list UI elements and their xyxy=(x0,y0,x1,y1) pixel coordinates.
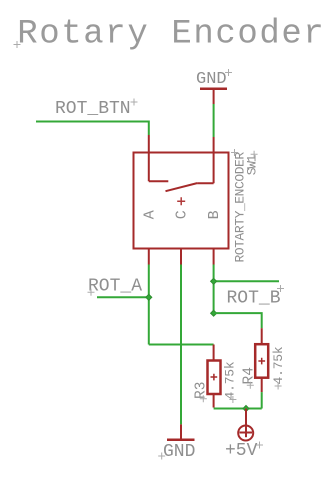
resistor R4 pin top xyxy=(261,328,263,344)
svg-text:4.75k: 4.75k xyxy=(271,346,286,384)
resistor R3 body xyxy=(208,361,221,395)
label R3 cross xyxy=(200,395,207,402)
label R4 cross xyxy=(247,382,254,389)
wire A column down xyxy=(148,265,150,345)
svg-text:+5V: +5V xyxy=(225,441,258,461)
pin SW1 bottom C xyxy=(180,249,182,265)
junction +5V xyxy=(243,406,249,412)
svg-text:ROT_BTN: ROT_BTN xyxy=(55,99,131,119)
supply symbol +5V plus bar xyxy=(240,432,253,434)
node ROT_B label cross xyxy=(277,285,284,292)
svg-text:C: C xyxy=(173,210,190,219)
title origin cross xyxy=(14,41,21,48)
wire B2 to R4 xyxy=(214,313,262,328)
svg-text:R4: R4 xyxy=(242,367,258,384)
svg-text:R3: R3 xyxy=(194,382,210,399)
svg-text:GND: GND xyxy=(163,442,195,462)
resistor R3 plus mark xyxy=(211,374,218,381)
label ROTARTY_ENCODER cross xyxy=(231,149,238,156)
resistor R4 plus mark xyxy=(258,358,265,365)
switch SW1 body xyxy=(134,153,229,249)
switch SW1 contact left xyxy=(149,153,169,182)
supply symbol +5V pin xyxy=(245,409,247,438)
svg-text:GND: GND xyxy=(196,70,227,89)
pin SW1 top-right (to GND) xyxy=(213,137,215,153)
label SW1 cross xyxy=(251,151,258,158)
svg-text:A: A xyxy=(141,210,158,219)
supply symbol +5V circle xyxy=(238,426,253,441)
wire B column down xyxy=(213,265,215,314)
pin SW1 top-left xyxy=(148,135,150,153)
wire ROT_B stub xyxy=(214,280,279,282)
supply symbol GND (bottom) pin xyxy=(180,424,182,439)
resistor R4 body xyxy=(255,344,268,378)
resistor R4 pin bottom xyxy=(261,378,263,392)
label R3 value cross xyxy=(229,396,236,403)
svg-text:4.75k: 4.75k xyxy=(223,361,238,399)
node GND (top) label cross xyxy=(225,69,232,76)
junction A xyxy=(146,294,152,300)
junction B1 xyxy=(211,278,217,284)
svg-text:ROT_B: ROT_B xyxy=(227,289,281,309)
resistor R3 pin bottom xyxy=(213,394,215,408)
node ROT_BTN label cross xyxy=(131,99,138,106)
junction B2 xyxy=(211,310,217,316)
pin SW1 bottom B xyxy=(213,249,215,265)
wire R4 bottom xyxy=(261,392,263,408)
node ROT_A label cross xyxy=(88,289,95,296)
supply symbol GND (top) pin xyxy=(213,89,215,104)
node GND (bottom) label cross xyxy=(158,453,165,460)
svg-text:Rotary Encoder: Rotary Encoder xyxy=(17,16,325,54)
supply symbol GND (top) bar xyxy=(200,87,227,90)
switch SW1 contact right xyxy=(197,153,214,184)
node +5V label cross xyxy=(256,442,263,449)
label R4 value cross xyxy=(275,383,282,390)
wire GND top to SW1 xyxy=(213,104,215,137)
wire bottom horizontal R3-R4 xyxy=(214,408,262,410)
wire ROT_BTN xyxy=(36,122,149,136)
resistor R3 pin top xyxy=(213,345,215,361)
svg-text:SW1: SW1 xyxy=(244,154,259,175)
pin SW1 bottom A xyxy=(148,249,150,265)
switch SW1 blade xyxy=(166,183,198,191)
switch SW1 origin cross (red) xyxy=(177,197,185,205)
svg-text:B: B xyxy=(206,210,223,219)
supply symbol GND (bottom) bar xyxy=(167,438,195,441)
svg-text:ROT_A: ROT_A xyxy=(88,277,142,297)
wire ROT_A stub xyxy=(97,296,149,298)
wire A branch to R3 xyxy=(149,344,214,346)
wire C column down xyxy=(180,265,182,425)
